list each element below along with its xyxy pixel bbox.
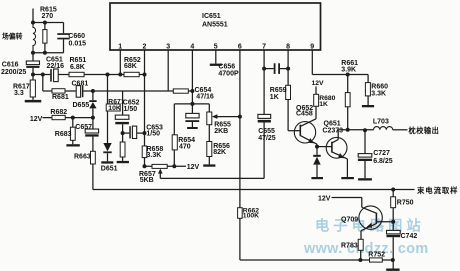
wire Q709 emitter to R783 bbox=[360, 231, 362, 240]
node coil top bbox=[31, 21, 35, 25]
node pin2 junction bbox=[143, 73, 147, 77]
svg-text:2KB: 2KB bbox=[214, 128, 228, 135]
wire Q709 base to R750 line bbox=[376, 221, 393, 223]
resistor R661 bbox=[347, 75, 349, 93]
wire Q652 emitter to Q651 base bbox=[317, 146, 332, 148]
resistor R617 bbox=[32, 75, 34, 81]
svg-text:6: 6 bbox=[238, 44, 242, 51]
node R615 top bbox=[43, 21, 47, 25]
svg-text:12V: 12V bbox=[30, 116, 43, 123]
node main rail left end bbox=[31, 73, 35, 77]
wire beam current sampling line bbox=[93, 189, 415, 191]
wire pin 6 bbox=[239, 50, 241, 208]
svg-text:C2373: C2373 bbox=[322, 127, 343, 134]
diode D653 bbox=[316, 147, 318, 155]
resistor R656 bbox=[207, 142, 212, 157]
wire pin 7 bbox=[263, 50, 265, 114]
IC U651 IC651 AN5551 box bbox=[110, 3, 321, 50]
wire pin9 horizontal bbox=[312, 74, 368, 76]
ground under R656 bbox=[203, 164, 215, 166]
wire Q651 collector up bbox=[337, 130, 339, 140]
svg-text:R750: R750 bbox=[397, 200, 414, 207]
svg-text:D655: D655 bbox=[73, 102, 90, 109]
svg-text:2: 2 bbox=[143, 44, 147, 51]
wire bias network top rail bbox=[174, 103, 209, 105]
node D655 top bbox=[91, 89, 95, 93]
node C656 right bbox=[286, 67, 290, 71]
svg-text:D651: D651 bbox=[101, 165, 118, 172]
capacitor C657 electrolytic bbox=[92, 118, 94, 129]
svg-text:R683: R683 bbox=[55, 131, 72, 138]
svg-text:12V: 12V bbox=[312, 80, 325, 87]
ground bottom right bbox=[386, 269, 399, 271]
svg-text:C616: C616 bbox=[2, 61, 19, 68]
ground under C727 bbox=[358, 178, 372, 180]
svg-text:47/16: 47/16 bbox=[196, 94, 214, 101]
transistor Q651 C2373 bbox=[326, 137, 347, 158]
svg-text:R681: R681 bbox=[52, 94, 69, 101]
wire R681 branch down bbox=[42, 75, 44, 92]
wire pin 5 bbox=[215, 50, 217, 64]
svg-text:100K: 100K bbox=[243, 212, 259, 219]
svg-text:L703: L703 bbox=[373, 119, 389, 126]
svg-text:IC651: IC651 bbox=[202, 13, 221, 20]
wire C681 to pin3 corner bbox=[83, 90, 173, 92]
svg-text:9: 9 bbox=[310, 44, 314, 51]
node R783 bottom bbox=[358, 258, 362, 262]
svg-text:C727: C727 bbox=[373, 150, 390, 157]
svg-text:8: 8 bbox=[286, 44, 290, 51]
capacitor C655 electrolytic bbox=[258, 114, 271, 118]
wire to R660 bbox=[367, 75, 369, 83]
ground under R617 bbox=[25, 100, 42, 103]
inductor L703 bbox=[374, 127, 393, 130]
node R654 bottom bbox=[172, 164, 176, 168]
diode D655 bbox=[92, 91, 94, 100]
capacitor C742 electrolytic bbox=[387, 230, 401, 234]
svg-text:7: 7 bbox=[262, 44, 266, 51]
svg-text:270: 270 bbox=[42, 13, 54, 20]
capacitor C651 electrolytic horizontal bbox=[50, 69, 52, 81]
capacitor C653 horizontal bbox=[123, 132, 130, 134]
wire bottom rail of yoke block bbox=[33, 52, 64, 54]
svg-text:C656: C656 bbox=[218, 63, 235, 70]
svg-text:4: 4 bbox=[190, 44, 194, 51]
wire main rail to C651 bbox=[33, 74, 50, 76]
wire top rail of yoke block bbox=[33, 22, 64, 24]
wire C652 top stub bbox=[122, 91, 124, 115]
resistor R615 bbox=[44, 23, 46, 30]
resistor R682 bbox=[52, 115, 65, 119]
svg-text:4700P: 4700P bbox=[218, 71, 239, 78]
svg-text:R663: R663 bbox=[74, 154, 91, 161]
wire output line bbox=[338, 129, 373, 131]
node pin1 junction bbox=[118, 73, 122, 77]
resistor R683 bbox=[72, 118, 74, 128]
capacitor C660 bbox=[63, 23, 65, 34]
node R681 branch bbox=[41, 73, 45, 77]
resistor R783 bbox=[358, 239, 363, 250]
svg-text:3.3: 3.3 bbox=[14, 90, 24, 97]
transistor Q709 bbox=[359, 206, 382, 229]
ground under that resistor bbox=[117, 161, 129, 163]
node C652 bottom bbox=[121, 131, 125, 135]
svg-text:C657: C657 bbox=[75, 124, 92, 131]
ground under R660 bbox=[362, 105, 374, 107]
wire pin 2 bbox=[144, 50, 146, 166]
wire pin 1 bbox=[119, 50, 121, 75]
node output line R661 bbox=[346, 128, 350, 132]
svg-text:2200/25: 2200/25 bbox=[1, 69, 26, 76]
svg-text:束电流取样: 束电流取样 bbox=[416, 186, 458, 195]
wire R671 branch down bbox=[107, 75, 109, 105]
svg-text:3.3K: 3.3K bbox=[371, 91, 386, 98]
wire Q651 emitter down bbox=[346, 159, 348, 177]
resistor R651 bbox=[69, 72, 84, 76]
svg-text:12V: 12V bbox=[318, 196, 331, 203]
svg-text:C742: C742 bbox=[401, 233, 418, 240]
svg-text:22/16: 22/16 bbox=[47, 63, 65, 70]
svg-text:470: 470 bbox=[179, 144, 191, 151]
svg-text:1K: 1K bbox=[270, 94, 279, 101]
resistor R652 bbox=[124, 72, 139, 76]
resistor R657 potentiometer bbox=[152, 164, 167, 168]
svg-text:6.8K: 6.8K bbox=[70, 64, 85, 71]
capacitor C727 electrolytic bbox=[364, 130, 366, 153]
diode D651 bbox=[103, 143, 111, 151]
svg-text:1/50: 1/50 bbox=[146, 130, 160, 137]
capacitor C681 bbox=[76, 86, 80, 98]
resistor R750 bbox=[392, 190, 394, 197]
ground under C654 bbox=[187, 127, 198, 129]
wire stub to deflection yoke bbox=[32, 9, 34, 23]
resistor R671 10K boxed value bbox=[106, 104, 120, 111]
svg-text:1: 1 bbox=[118, 44, 122, 51]
wire pin 4 bbox=[191, 50, 193, 104]
node C653 right bbox=[143, 131, 147, 135]
capacitor C616 electrolytic bbox=[32, 53, 34, 61]
resistor R681 bbox=[43, 90, 52, 92]
svg-text:5: 5 bbox=[214, 44, 218, 51]
node R658 bottom bbox=[143, 164, 147, 168]
svg-text:C681: C681 bbox=[72, 80, 89, 87]
svg-text:R659: R659 bbox=[270, 87, 287, 94]
node bottom rail right bbox=[391, 258, 395, 262]
wire 12V to Q709 bbox=[332, 197, 362, 199]
svg-text:R682: R682 bbox=[50, 109, 67, 116]
svg-text:5KB: 5KB bbox=[140, 177, 154, 184]
resistor R680 bbox=[314, 94, 319, 106]
svg-text:3: 3 bbox=[166, 44, 170, 51]
svg-text:R660: R660 bbox=[371, 84, 388, 91]
wire R662 to bottom rail bbox=[239, 218, 241, 260]
wire L703 to output bbox=[393, 129, 408, 131]
resistor R662 bbox=[238, 208, 243, 219]
node R683 branch bbox=[71, 116, 75, 120]
resistor R653 between pin3 and pin4 bbox=[173, 89, 188, 93]
capacitor C656 bbox=[264, 68, 274, 70]
ground under D653 bbox=[311, 177, 323, 179]
node R615 bottom bbox=[43, 51, 47, 55]
node coil bottom bbox=[31, 51, 35, 55]
wire pin 8 bbox=[287, 50, 289, 131]
svg-text:10K: 10K bbox=[108, 105, 121, 112]
svg-text:Q709: Q709 bbox=[341, 217, 358, 224]
svg-text:68K: 68K bbox=[124, 63, 137, 70]
R655 wiper arrow bbox=[212, 114, 218, 119]
resistor R660 bbox=[365, 83, 370, 96]
svg-text:82K: 82K bbox=[213, 149, 226, 156]
wire R657 wiper to pin7 line bbox=[160, 177, 264, 179]
node pin4-R653 bbox=[190, 89, 194, 93]
svg-text:AN5551: AN5551 bbox=[202, 22, 228, 29]
svg-text:1/50: 1/50 bbox=[124, 106, 138, 113]
svg-text:R752: R752 bbox=[368, 252, 385, 259]
capacitor C652 electrolytic bbox=[115, 115, 129, 119]
svg-text:12V: 12V bbox=[187, 164, 200, 171]
svg-text:R783: R783 bbox=[341, 243, 358, 250]
wire R671 to D651 bbox=[107, 111, 109, 143]
resistor R659 bbox=[286, 85, 291, 99]
svg-text:C660: C660 bbox=[68, 33, 85, 40]
node pin4 lower junction bbox=[190, 102, 194, 106]
resistor R663 bbox=[91, 151, 96, 164]
inductor L (field deflection coil) bbox=[33, 23, 36, 53]
ground under pin 5 bbox=[210, 64, 222, 66]
wire rail C651 to pin2 line bbox=[58, 74, 144, 76]
wire bottom rail bbox=[240, 259, 393, 261]
svg-text:1K: 1K bbox=[319, 101, 328, 108]
node R671 branch bbox=[106, 73, 110, 77]
wire pin 9 bbox=[311, 50, 313, 75]
wire Q652 emitter down bbox=[316, 144, 318, 146]
node 12V-D655 junction bbox=[91, 116, 95, 120]
transistor Q652 C458 bbox=[294, 122, 315, 143]
wire 12V feed line bbox=[43, 117, 93, 119]
svg-text:C458: C458 bbox=[296, 111, 313, 118]
svg-text:6.8/25: 6.8/25 bbox=[373, 158, 393, 165]
ground under D651 bbox=[101, 161, 113, 163]
capacitor C654 electrolytic bbox=[191, 104, 193, 114]
resistor R654 bbox=[173, 104, 175, 135]
svg-text:www. cndzz. com: www. cndzz. com bbox=[303, 241, 429, 257]
resistor below C652 junction bbox=[122, 133, 124, 142]
svg-text:C655: C655 bbox=[258, 128, 275, 135]
node pin6 wiper junction bbox=[238, 115, 242, 119]
wire pin 3 bbox=[167, 50, 169, 91]
svg-text:47/25: 47/25 bbox=[258, 135, 276, 142]
node C656 left bbox=[262, 67, 266, 71]
node C727 tap bbox=[363, 128, 367, 132]
node sampling line R750 bbox=[391, 188, 395, 192]
wire 12V mid rail bbox=[145, 165, 187, 167]
resistor R658 bbox=[142, 146, 147, 158]
wire Q652 collector to R680 bbox=[315, 106, 317, 119]
R657 wiper arrow bbox=[158, 169, 163, 174]
svg-text:3.9K: 3.9K bbox=[341, 66, 356, 73]
node Q652 emitter junction bbox=[315, 145, 319, 149]
resistor R655 potentiometer bbox=[208, 104, 210, 112]
svg-text:场偏转: 场偏转 bbox=[2, 32, 23, 41]
ground under R683 bbox=[66, 144, 79, 146]
resistor R752 bbox=[370, 258, 383, 262]
node Q709 base junction bbox=[391, 220, 395, 224]
node R661 top bbox=[346, 73, 350, 77]
svg-text:3.3K: 3.3K bbox=[147, 152, 162, 159]
ground under Q651 emitter bbox=[341, 177, 354, 179]
wire pin8 to Q652 base bbox=[288, 130, 300, 132]
svg-text:枕校输出: 枕校输出 bbox=[409, 126, 440, 135]
svg-text:0.015: 0.015 bbox=[69, 40, 87, 47]
